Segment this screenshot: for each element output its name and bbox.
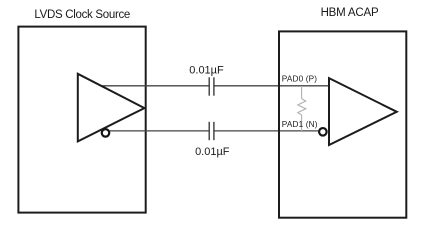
box LVDS Clock Source bbox=[18, 27, 145, 213]
buffer driver triangle bbox=[78, 74, 145, 142]
termination resistor bbox=[298, 86, 306, 131]
wire top right segment bbox=[214, 85, 329, 87]
wire bottom left segment bbox=[110, 130, 209, 132]
receiver triangle bbox=[329, 78, 397, 145]
svg-text:PAD1 (N): PAD1 (N) bbox=[282, 120, 318, 129]
capacitor C2 0.01uF bottom bbox=[209, 122, 214, 140]
capacitor C1 0.01uF top bbox=[209, 77, 214, 95]
svg-text:PAD0 (P): PAD0 (P) bbox=[282, 75, 318, 84]
inversion bubble on driver N output bbox=[102, 129, 110, 137]
inversion bubble on receiver N input bbox=[319, 128, 327, 136]
svg-text:HBM ACAP: HBM ACAP bbox=[321, 7, 379, 19]
box HBM ACAP bbox=[279, 31, 406, 217]
svg-text:0.01µF: 0.01µF bbox=[195, 146, 230, 158]
wire top left segment bbox=[101, 85, 209, 87]
svg-text:LVDS Clock Source: LVDS Clock Source bbox=[34, 9, 130, 21]
svg-text:0.01µF: 0.01µF bbox=[189, 64, 224, 76]
wire bottom right segment bbox=[214, 130, 318, 132]
